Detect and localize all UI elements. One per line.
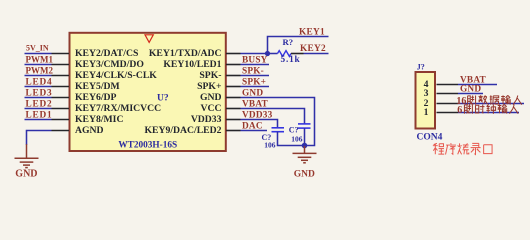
svg-text:GND: GND (460, 84, 481, 94)
svg-text:KEY8/MIC: KEY8/MIC (75, 114, 123, 125)
svg-text:KEY1/TXD/ADC: KEY1/TXD/ADC (149, 48, 222, 59)
resistor right lead (291, 53, 304, 55)
wire net DAC (241, 130, 268, 132)
capacitor C? (right) plates (298, 124, 311, 128)
svg-text:VBAT: VBAT (242, 99, 269, 109)
pin 13 SPK+ (226, 86, 241, 88)
pin 1 KEY2/DAT/CS (52, 53, 70, 55)
capacitor C? right bottom lead (304, 128, 306, 145)
svg-text:KEY3/CMD/DO: KEY3/CMD/DO (75, 59, 144, 70)
svg-text:PWM1: PWM1 (26, 54, 54, 64)
net label 16-pin data input (Chinese) (456, 95, 521, 107)
connector pin 4 stub (437, 84, 459, 86)
pin 11 VCC (226, 108, 241, 110)
wire net LED4 (25, 86, 52, 88)
svg-text:GND: GND (200, 92, 222, 103)
wire net LED3 (25, 97, 52, 99)
pin 10 VDD33 (226, 119, 241, 121)
pin 12 GND (226, 97, 241, 99)
wire net LED1 (25, 119, 52, 121)
resistor R? 5.1k zigzag (268, 53, 278, 55)
wire KEY2 (304, 53, 329, 55)
wire net GND to ground rail (241, 98, 315, 146)
svg-text:KEY7/RX/MICVCC: KEY7/RX/MICVCC (75, 103, 161, 114)
svg-text:KEY2/DAT/CS: KEY2/DAT/CS (75, 48, 138, 59)
svg-text:LED1: LED1 (26, 110, 53, 120)
svg-text:SPK+: SPK+ (197, 81, 222, 92)
pin 16 KEY1/TXD/ADC (226, 53, 241, 55)
pin 15 KEY10/LED1 (226, 64, 241, 66)
pin 5 KEY6/DP (52, 97, 70, 99)
wire AGND to ground (27, 131, 52, 145)
wire net row 3 (458, 103, 524, 105)
svg-text:SPK-: SPK- (242, 66, 264, 76)
svg-text:SPK+: SPK+ (242, 77, 266, 87)
annotation: program burn port (Chinese, red) (433, 143, 492, 154)
wire net row 4 (458, 112, 519, 114)
junction dot node KEY1 (265, 51, 270, 56)
wire net VBAT to capacitor (241, 109, 305, 124)
svg-text:R?: R? (283, 37, 294, 47)
pin 6 KEY7/RX/MICVCC (52, 108, 70, 110)
wire net PWM2 (25, 75, 52, 77)
ground symbol left GND (26, 144, 28, 158)
connector J? CON4 body (416, 72, 436, 129)
svg-text:KEY2: KEY2 (300, 44, 326, 54)
svg-text:J?: J? (417, 62, 425, 71)
svg-text:VDD33: VDD33 (191, 114, 222, 125)
capacitor C? (left) plates (272, 128, 285, 132)
svg-text:GND: GND (15, 169, 37, 180)
wire net SPK- (241, 75, 270, 77)
junction dot ground rail (302, 143, 308, 149)
pin 2 KEY3/CMD/DO (52, 64, 70, 66)
connector pin 1 stub (437, 112, 459, 114)
svg-text:AGND: AGND (75, 125, 104, 136)
wire net row 1 (458, 84, 497, 86)
svg-text:CON4: CON4 (417, 133, 443, 143)
svg-text:LED4: LED4 (26, 77, 53, 87)
ground symbol right GND (304, 146, 306, 153)
svg-text:GND: GND (242, 88, 263, 98)
svg-text:1: 1 (424, 107, 429, 118)
svg-text:5V_IN: 5V_IN (26, 43, 49, 52)
svg-text:KEY4/CLK/S-CLK: KEY4/CLK/S-CLK (75, 70, 157, 81)
wire net LED2 (25, 108, 52, 110)
svg-text:DAC: DAC (242, 121, 263, 131)
wire net row 2 (458, 93, 483, 95)
svg-text:KEY1: KEY1 (299, 27, 325, 37)
svg-text:106: 106 (264, 140, 276, 149)
svg-text:5.1k: 5.1k (281, 55, 301, 65)
svg-text:PWM2: PWM2 (26, 65, 54, 75)
svg-text:VCC: VCC (201, 103, 222, 114)
wire riser and KEY1 label wire (268, 37, 329, 54)
wire net 5V_IN (25, 53, 52, 55)
wire net PWM1 (25, 64, 52, 66)
capacitor C? left bottom lead (278, 132, 305, 146)
svg-text:6: 6 (457, 105, 462, 116)
IC U? body (70, 33, 226, 151)
wire KEY1 pin to junction (241, 53, 268, 55)
connector pin 2 stub (437, 103, 459, 105)
svg-text:SPK-: SPK- (199, 70, 221, 81)
pin 7 KEY8/MIC (52, 119, 70, 121)
svg-text:VDD33: VDD33 (242, 110, 273, 120)
svg-text:WT2003H-16S: WT2003H-16S (118, 141, 177, 151)
svg-text:KEY6/DP: KEY6/DP (75, 92, 117, 103)
pin 8 AGND (52, 130, 70, 132)
svg-text:106: 106 (291, 135, 303, 144)
wire net SPK+ (241, 86, 270, 88)
svg-text:KEY5/DM: KEY5/DM (75, 81, 120, 92)
wire net BUSY (241, 64, 270, 66)
connector pin 3 stub (437, 93, 459, 95)
svg-text:GND: GND (294, 170, 315, 180)
svg-text:LED3: LED3 (26, 88, 53, 98)
pin 3 KEY4/CLK/S-CLK (52, 75, 70, 77)
svg-text:LED2: LED2 (26, 99, 53, 109)
marker triangle (145, 35, 153, 43)
pin 14 SPK- (226, 75, 241, 77)
svg-text:U?: U? (157, 94, 169, 104)
pin 9 KEY9/DAC/LED2 (226, 130, 241, 132)
pin 4 KEY5/DM (52, 86, 70, 88)
wire net VDD33 to capacitor (241, 120, 278, 128)
net label 6-pin clock input (Chinese) (457, 104, 518, 116)
svg-text:KEY10/LED1: KEY10/LED1 (163, 59, 221, 70)
svg-text:C?: C? (289, 126, 299, 135)
svg-text:KEY9/DAC/LED2: KEY9/DAC/LED2 (145, 125, 222, 136)
svg-text:BUSY: BUSY (242, 55, 268, 65)
